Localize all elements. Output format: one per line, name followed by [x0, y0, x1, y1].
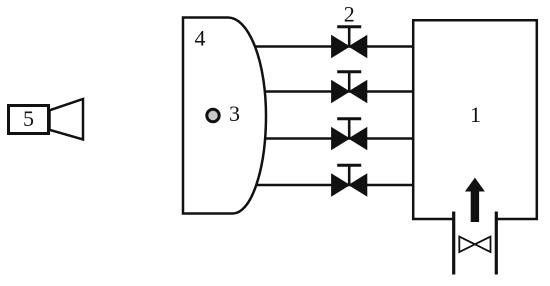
- valve V1 handle bar: [337, 25, 361, 28]
- svg-text:2: 2: [344, 2, 355, 27]
- wire line 1 (top manifold pipe): [244, 45, 412, 48]
- wire line 2: [244, 90, 412, 93]
- valve V1 stem: [348, 27, 351, 47]
- valve V4 stem: [348, 166, 351, 186]
- inlet pipe right wall: [495, 212, 498, 275]
- tank 1 (rectangle with bottom opening): [413, 20, 537, 219]
- svg-text:1: 1: [470, 102, 481, 127]
- inlet valve (hollow bowtie): [459, 237, 490, 252]
- flow arrow (up): [466, 179, 484, 222]
- valve V2 body (bowtie): [332, 81, 367, 103]
- wire line 4: [244, 184, 412, 187]
- valve V3 stem: [348, 119, 351, 139]
- valve V4 body (bowtie): [332, 174, 367, 196]
- horn of source 5 (trapezoid nozzle): [50, 99, 84, 140]
- source box 5: [9, 106, 49, 134]
- chamber vessel 4 (D-shaped tank): [183, 18, 266, 214]
- valve V2 handle bar: [337, 70, 361, 73]
- valve V2 stem: [348, 72, 351, 92]
- valve V3 body (bowtie): [332, 128, 367, 150]
- port 3 (gray circle): [207, 109, 219, 121]
- inlet pipe left wall: [452, 212, 455, 275]
- svg-text:5: 5: [23, 106, 34, 131]
- svg-text:4: 4: [195, 26, 206, 51]
- valve V4 handle bar: [337, 164, 361, 167]
- svg-text:3: 3: [229, 101, 240, 126]
- valve V3 handle bar: [337, 117, 361, 120]
- valve V1 body (bowtie): [332, 36, 367, 58]
- wire line 3: [244, 137, 412, 140]
